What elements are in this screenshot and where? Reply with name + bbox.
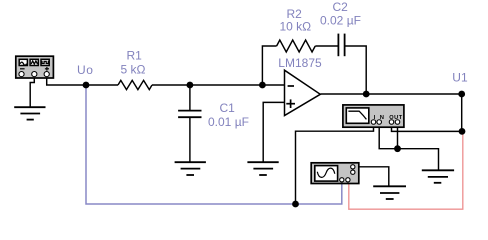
svg-text:U1: U1 xyxy=(452,70,468,84)
svg-text:5 kΩ: 5 kΩ xyxy=(121,63,146,77)
svg-text:0.01 µF: 0.01 µF xyxy=(208,115,249,129)
svg-text:R1: R1 xyxy=(127,49,143,63)
svg-text:C1: C1 xyxy=(220,101,236,115)
svg-text:C2: C2 xyxy=(333,0,349,14)
svg-text:10 kΩ: 10 kΩ xyxy=(280,19,312,33)
svg-text:Uo: Uo xyxy=(77,63,94,77)
svg-text:0.02 µF: 0.02 µF xyxy=(320,14,361,28)
svg-text:LM1875: LM1875 xyxy=(278,56,322,70)
